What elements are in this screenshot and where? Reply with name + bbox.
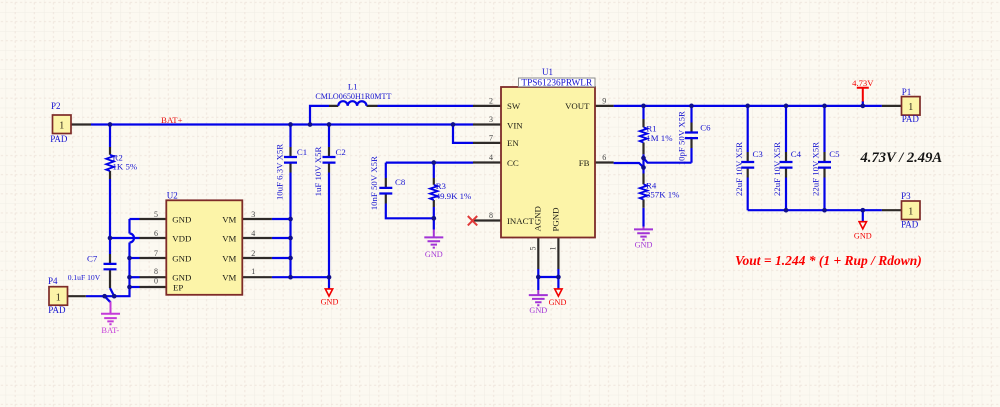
wire U2 VM pin4 bbox=[272, 237, 291, 239]
U1 pin number 2 bbox=[489, 96, 493, 105]
pin stubs C7 bbox=[109, 254, 111, 288]
wire EN branch vertical and horizontal bbox=[453, 125, 473, 143]
ground earth symbol at R3 GND bbox=[424, 230, 443, 248]
connector pad P4 bbox=[49, 287, 68, 306]
net label BAT+ bbox=[161, 115, 183, 125]
label PAD of P1 bbox=[902, 114, 920, 124]
U2 pin number 7 bbox=[154, 249, 158, 258]
svg-text:GND: GND bbox=[172, 273, 191, 283]
svg-text:PAD: PAD bbox=[50, 134, 68, 144]
label L1 bbox=[348, 81, 358, 91]
net label GND purple at R4 bbox=[635, 241, 653, 250]
wire L1 branch up from BAT+ rail bbox=[310, 106, 329, 125]
svg-text:R3: R3 bbox=[436, 181, 447, 191]
svg-text:GND: GND bbox=[549, 298, 567, 307]
wire output bottom rail bbox=[748, 209, 882, 211]
U2 pin number 5 bbox=[154, 210, 158, 219]
wire CC to R3 and C8 bbox=[386, 162, 473, 164]
value 1K 5% bbox=[113, 162, 138, 172]
U1 pin number 9 bbox=[602, 96, 606, 105]
svg-text:GND: GND bbox=[854, 232, 872, 241]
svg-text:P4: P4 bbox=[48, 276, 58, 286]
label C6 bbox=[700, 123, 711, 133]
svg-text:1: 1 bbox=[59, 121, 64, 132]
svg-text:22uF 10V X5R: 22uF 10V X5R bbox=[811, 142, 821, 196]
svg-text:R1: R1 bbox=[646, 124, 656, 134]
connector pad P2 bbox=[53, 115, 72, 134]
label C3 bbox=[753, 149, 764, 159]
svg-text:2: 2 bbox=[489, 96, 493, 105]
svg-text:2: 2 bbox=[251, 249, 255, 258]
pin stubs R4 bbox=[642, 174, 644, 208]
svg-text:4: 4 bbox=[489, 153, 493, 162]
junction dots CC node bbox=[431, 160, 436, 220]
pin stubs R2 bbox=[109, 147, 111, 179]
junction dots U2 left bus bbox=[108, 236, 132, 290]
wire C6 top drop bbox=[690, 106, 692, 123]
power symbol 4.73V bbox=[857, 88, 869, 102]
label R3 bbox=[436, 181, 447, 191]
pin stubs R3 bbox=[433, 178, 435, 207]
svg-text:1uF 10V X5R: 1uF 10V X5R bbox=[313, 147, 323, 197]
svg-text:VM: VM bbox=[222, 273, 236, 283]
wire U2 pin7 bbox=[130, 257, 140, 259]
svg-text:5: 5 bbox=[529, 247, 538, 251]
wire C1 vertical VM bus bbox=[289, 125, 291, 278]
label C1 bbox=[297, 147, 307, 157]
U2 pin number 0 bbox=[154, 277, 158, 286]
connector pad P3 bbox=[902, 201, 921, 220]
wire U2 pin8 bbox=[130, 276, 140, 278]
ground earth symbol at R4 GND bbox=[634, 227, 653, 240]
svg-text:PAD: PAD bbox=[902, 114, 920, 124]
svg-text:4.73V: 4.73V bbox=[852, 78, 874, 88]
svg-text:5: 5 bbox=[154, 210, 158, 219]
U1 pin number 3 bbox=[489, 115, 493, 124]
wire P4 to BAT- node bbox=[86, 296, 114, 302]
label P3 bbox=[901, 191, 911, 201]
U1 pin number 6 bbox=[602, 153, 606, 162]
svg-text:FB: FB bbox=[579, 158, 590, 168]
svg-text:C1: C1 bbox=[297, 147, 307, 157]
svg-text:C6: C6 bbox=[700, 123, 711, 133]
svg-text:C5: C5 bbox=[829, 149, 840, 159]
svg-text:C7: C7 bbox=[87, 254, 98, 264]
svg-text:7: 7 bbox=[154, 249, 158, 258]
wire C2 vertical bbox=[328, 125, 330, 289]
svg-text:9: 9 bbox=[602, 96, 606, 105]
svg-text:P2: P2 bbox=[51, 101, 61, 111]
pin stubs C1 bbox=[289, 147, 291, 173]
svg-text:22uF 10V X5R: 22uF 10V X5R bbox=[734, 142, 744, 196]
U1 pin name VOUT bbox=[565, 101, 590, 111]
wire VOUT rail bbox=[614, 105, 882, 107]
pin stubs U1 right bbox=[595, 106, 614, 163]
annotation Vout formula bbox=[735, 253, 922, 268]
svg-text:C2: C2 bbox=[336, 147, 346, 157]
label R2 bbox=[113, 153, 123, 163]
label PAD of P4 bbox=[48, 305, 66, 315]
wire C8 top drop bbox=[385, 163, 387, 178]
value of C4 rotated bbox=[772, 142, 782, 196]
svg-text:10uF 6.3V X5R: 10uF 6.3V X5R bbox=[275, 144, 285, 200]
svg-text:10pF 50V X5R: 10pF 50V X5R bbox=[676, 111, 686, 165]
U1 pin number 8 bbox=[489, 211, 493, 220]
wire R4 verticals bbox=[642, 168, 644, 227]
svg-text:0: 0 bbox=[154, 277, 158, 286]
capacitor C1 plates bbox=[284, 157, 297, 163]
svg-text:6: 6 bbox=[154, 229, 158, 238]
svg-text:1: 1 bbox=[251, 267, 255, 276]
wire U2 VM pin1 to C2 line bbox=[272, 276, 329, 278]
wire C8 R3 bottom link bbox=[386, 204, 434, 219]
value of C8 rotated bbox=[369, 156, 379, 210]
svg-text:1K 5%: 1K 5% bbox=[113, 162, 138, 172]
svg-text:VOUT: VOUT bbox=[565, 101, 590, 111]
wire U2 pin6 VDD to R2 node bbox=[110, 237, 140, 239]
pin stubs R1 bbox=[642, 119, 644, 154]
label C2 bbox=[336, 147, 346, 157]
capacitor C3 plates bbox=[741, 162, 754, 168]
svg-text:0.1uF 10V: 0.1uF 10V bbox=[68, 273, 101, 282]
resistor R4 bbox=[640, 184, 648, 199]
junction dots VOUT rail bbox=[641, 104, 865, 109]
U1 pin name INACT bbox=[507, 216, 535, 226]
svg-text:VDD: VDD bbox=[172, 233, 191, 243]
svg-text:C8: C8 bbox=[395, 177, 406, 187]
svg-text:GND: GND bbox=[321, 298, 339, 307]
U2 pin number 3 bbox=[251, 210, 255, 219]
net label GND at C2 bbox=[321, 298, 339, 307]
U2 pin number 4 bbox=[251, 229, 255, 238]
connector pad P1 bbox=[902, 97, 921, 116]
U2 pin name GND pin5 bbox=[172, 214, 191, 224]
U2 pin name EP bbox=[173, 282, 183, 292]
junction dots BAT- node bbox=[102, 294, 116, 299]
net label 4.73V bbox=[852, 78, 874, 88]
U2 pin number 1 bbox=[251, 267, 255, 276]
wire 4.73V power drop bbox=[862, 101, 864, 106]
label C8 bbox=[395, 177, 406, 187]
U1 pin number 5 rotated bbox=[529, 247, 538, 251]
wire FB to C6 segment with diagonal bbox=[644, 158, 692, 163]
ground earth symbol BAT- bbox=[101, 302, 120, 325]
U2 pin name GND pin7 bbox=[172, 253, 191, 263]
U1 pin name CC bbox=[507, 158, 519, 168]
label C7 bbox=[87, 254, 98, 264]
wire C3 verticals bbox=[747, 106, 749, 210]
value of C7 bbox=[68, 273, 101, 282]
U1 pin number 4 bbox=[489, 153, 493, 162]
value of C6 rotated bbox=[676, 111, 686, 165]
wire U2 pin5 bbox=[130, 218, 140, 220]
label P2 bbox=[51, 101, 61, 111]
svg-text:CMLO0650H1R0MTT: CMLO0650H1R0MTT bbox=[315, 92, 391, 101]
U2 pin number 2 bbox=[251, 249, 255, 258]
label C4 bbox=[791, 149, 802, 159]
capacitor C8 plates bbox=[379, 188, 392, 194]
svg-text:4.73V / 2.49A: 4.73V / 2.49A bbox=[860, 150, 943, 166]
label PAD of P2 bbox=[50, 134, 68, 144]
wire FB left segment with diagonal bbox=[614, 163, 644, 167]
wire U2 VM pin2 bbox=[272, 257, 291, 259]
svg-text:EP: EP bbox=[173, 282, 183, 292]
wire C4 verticals bbox=[785, 106, 787, 210]
svg-text:8: 8 bbox=[154, 267, 158, 276]
wire R1 verticals bbox=[642, 106, 644, 168]
label PAD of P3 bbox=[901, 220, 919, 230]
wire R3 verticals bbox=[433, 163, 435, 230]
U1 pin number 1 rotated bbox=[549, 247, 558, 251]
wire U2 left bus vertical with hop over VDD bbox=[114, 219, 134, 296]
label P4 bbox=[48, 276, 58, 286]
svg-text:1: 1 bbox=[908, 102, 913, 113]
svg-text:PAD: PAD bbox=[901, 220, 919, 230]
resistor R1 bbox=[640, 127, 648, 142]
ground earth symbol at U1 AGND bbox=[529, 290, 548, 305]
svg-text:VM: VM bbox=[222, 253, 236, 263]
pin stub P4 bbox=[67, 295, 86, 297]
pin stub P3 bbox=[882, 209, 902, 211]
junction dots U2 VM bus bbox=[288, 217, 331, 280]
pin stubs C3 bbox=[747, 152, 749, 178]
svg-text:GND: GND bbox=[425, 250, 443, 259]
junction dots U1 bottom bbox=[536, 275, 561, 280]
junction dots bottom rail bbox=[784, 208, 866, 213]
svg-text:3: 3 bbox=[251, 210, 255, 219]
IC U1 body bbox=[501, 87, 595, 238]
value of C3 rotated bbox=[734, 142, 744, 196]
value 1M 1% bbox=[646, 133, 673, 143]
U2 pin name VM pin3 bbox=[222, 214, 236, 224]
U1 pin name PGND rotated bbox=[551, 208, 561, 232]
pin stub P2 bbox=[71, 123, 91, 125]
U1 pin name VIN bbox=[507, 120, 523, 130]
svg-text:10nF 50V X5R: 10nF 50V X5R bbox=[369, 156, 379, 210]
svg-text:SW: SW bbox=[507, 101, 521, 111]
svg-text:3: 3 bbox=[489, 115, 493, 124]
svg-text:1M 1%: 1M 1% bbox=[646, 133, 673, 143]
svg-text:Vout = 1.244 * (1 + Rup / Rdow: Vout = 1.244 * (1 + Rup / Rdown) bbox=[735, 253, 922, 268]
junction dots BAT+ rail bbox=[108, 122, 456, 127]
svg-text:VIN: VIN bbox=[507, 120, 523, 130]
U2 pin name VM pin4 bbox=[222, 233, 236, 243]
svg-text:357K 1%: 357K 1% bbox=[646, 190, 680, 200]
svg-text:7: 7 bbox=[489, 133, 493, 142]
svg-text:VM: VM bbox=[222, 233, 236, 243]
svg-text:22uF 10V X5R: 22uF 10V X5R bbox=[772, 142, 782, 196]
capacitor C4 plates bbox=[780, 162, 793, 168]
U1 pin name FB bbox=[579, 158, 590, 168]
capacitor C5 plates bbox=[818, 162, 831, 168]
label P1 bbox=[902, 87, 912, 97]
wire SW from L1 to U1 pin 2 bbox=[378, 105, 474, 107]
pin stubs U2 right bbox=[242, 219, 272, 277]
ground arrow at output rail bbox=[859, 222, 866, 229]
net label GND at output rail bbox=[854, 232, 872, 241]
pin stubs C6 bbox=[690, 123, 692, 149]
net label BAT- bbox=[101, 326, 119, 335]
svg-text:BAT-: BAT- bbox=[101, 326, 119, 335]
label R4 bbox=[646, 181, 657, 191]
wire AGND PGND bottom links bbox=[538, 269, 558, 290]
pin stubs U1 left bbox=[473, 106, 501, 221]
pin stubs L1 bbox=[329, 105, 378, 107]
resistor R3 bbox=[430, 185, 438, 200]
U2 pin number 6 bbox=[154, 229, 158, 238]
U1 pin number 7 bbox=[489, 133, 493, 142]
U2 pin name VM pin2 bbox=[222, 253, 236, 263]
label U2 bbox=[167, 190, 178, 200]
svg-text:4: 4 bbox=[251, 229, 255, 238]
IC U1 part-number box TPS61236PRWLR bbox=[519, 78, 596, 88]
U1 pin name SW bbox=[507, 101, 521, 111]
wire U2 VM pin3 to C1 bus bbox=[272, 218, 291, 220]
capacitor C6 plates bbox=[685, 133, 698, 139]
value 49.9K 1% bbox=[436, 191, 472, 201]
svg-text:L1: L1 bbox=[348, 81, 358, 91]
svg-text:TPS61236PRWLR: TPS61236PRWLR bbox=[521, 78, 593, 88]
U2 pin number 8 bbox=[154, 267, 158, 276]
wire C6 bottom drop bbox=[690, 148, 692, 163]
wire BAT+ rail P2 to VIN bbox=[91, 123, 473, 125]
pin stubs C8 bbox=[385, 178, 387, 204]
svg-text:AGND: AGND bbox=[533, 206, 543, 231]
svg-text:INACT: INACT bbox=[507, 216, 535, 226]
svg-text:C4: C4 bbox=[791, 149, 802, 159]
svg-text:P3: P3 bbox=[901, 191, 911, 201]
IC U2 body bbox=[166, 200, 242, 294]
wire U2 EP bbox=[130, 286, 140, 288]
net label GND purple at AGND bbox=[529, 306, 547, 315]
svg-text:BAT+: BAT+ bbox=[161, 115, 183, 125]
svg-text:VM: VM bbox=[222, 214, 236, 224]
svg-text:U1: U1 bbox=[542, 67, 553, 77]
pin stubs C5 bbox=[823, 152, 825, 178]
capacitor C7 plates bbox=[104, 264, 117, 269]
label R1 bbox=[646, 124, 656, 134]
value of C2 rotated bbox=[313, 147, 323, 197]
U1 pin name EN bbox=[507, 138, 519, 148]
svg-text:GND: GND bbox=[172, 253, 191, 263]
svg-text:C3: C3 bbox=[753, 149, 764, 159]
resistor R2 bbox=[106, 155, 114, 171]
annotation 4.73V / 2.49A bbox=[860, 150, 943, 166]
pin stubs U1 bottom bbox=[538, 238, 558, 270]
U2 pin name VM pin1 bbox=[222, 273, 236, 283]
value CMLO0650H1R0MTT bbox=[315, 92, 391, 101]
svg-text:P1: P1 bbox=[902, 87, 912, 97]
svg-text:8: 8 bbox=[489, 211, 493, 220]
wire C5 verticals bbox=[823, 106, 825, 210]
svg-text:CC: CC bbox=[507, 158, 519, 168]
pin stub P1 bbox=[882, 105, 902, 107]
wire R2 C7 vertical bbox=[110, 125, 114, 297]
ground arrow at U1 PGND bbox=[555, 289, 562, 296]
svg-text:GND: GND bbox=[635, 241, 653, 250]
svg-text:6: 6 bbox=[602, 153, 606, 162]
value of C1 rotated bbox=[275, 144, 285, 200]
net label GND at PGND bbox=[549, 298, 567, 307]
junction dots FB node bbox=[641, 156, 646, 170]
pin stubs C4 bbox=[785, 152, 787, 178]
svg-text:49.9K 1%: 49.9K 1% bbox=[436, 191, 472, 201]
svg-text:1: 1 bbox=[908, 207, 913, 218]
svg-text:EN: EN bbox=[507, 138, 519, 148]
svg-text:GND: GND bbox=[172, 214, 191, 224]
U2 pin name VDD bbox=[172, 233, 191, 243]
U2 pin name GND pin8 bbox=[172, 273, 191, 283]
net label GND purple at R3 bbox=[425, 250, 443, 259]
svg-text:1: 1 bbox=[549, 247, 558, 251]
ground arrow at C2 bbox=[325, 289, 332, 296]
inductor L1 bbox=[338, 101, 366, 106]
svg-text:PGND: PGND bbox=[551, 208, 561, 232]
value 357K 1% bbox=[646, 190, 680, 200]
label U1 bbox=[542, 67, 553, 77]
wire output GND drop bbox=[862, 210, 864, 221]
svg-text:1: 1 bbox=[56, 292, 61, 303]
svg-text:PAD: PAD bbox=[48, 305, 66, 315]
capacitor C2 plates bbox=[323, 157, 336, 163]
no-connect X on INACT pin 8 bbox=[468, 216, 477, 225]
U1 pin name AGND rotated bbox=[533, 206, 543, 231]
pin stubs U2 left bbox=[140, 219, 167, 287]
label C5 bbox=[829, 149, 840, 159]
svg-text:U2: U2 bbox=[167, 190, 178, 200]
value of C5 rotated bbox=[811, 142, 821, 196]
svg-text:GND: GND bbox=[529, 306, 547, 315]
pin stubs C2 bbox=[328, 147, 330, 173]
